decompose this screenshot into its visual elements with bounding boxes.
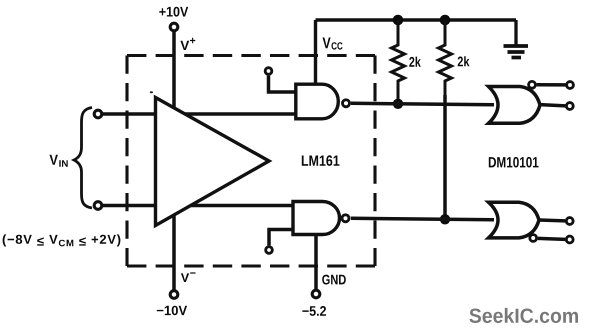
terminal G4 NOR	[566, 236, 573, 243]
wire V- supply	[172, 215, 176, 290]
gate G3 OR/NOR upper DM10101	[489, 87, 541, 124]
node junction VCC rail / R1	[393, 15, 404, 26]
label VCC	[323, 38, 331, 49]
gate G2 NAND lower	[293, 202, 340, 235]
resistor R2 2k	[439, 20, 452, 95]
gate G1 output bubble	[343, 100, 350, 107]
label -10V	[157, 306, 187, 316]
wire inverting input	[103, 204, 156, 208]
label -5.2	[302, 306, 326, 316]
wire GND pin	[314, 235, 318, 290]
label DM10101	[489, 157, 539, 168]
terminal inverting input	[94, 202, 102, 210]
label VIN	[50, 155, 58, 165]
wire G4 NOR output	[538, 238, 565, 239]
terminal G4 OR	[566, 218, 573, 225]
wire G4 OR output	[539, 218, 565, 222]
terminal G3 OR	[566, 103, 573, 110]
wire strobe 1	[269, 76, 296, 92]
terminal noninverting input	[94, 110, 102, 118]
label V-	[181, 273, 189, 282]
gate G2 output bubble	[342, 215, 349, 222]
label common-mode range	[3, 234, 121, 246]
label GND	[322, 275, 346, 285]
wire V+ supply	[172, 32, 176, 108]
gate G3 NOR bubble	[529, 81, 536, 88]
gate G4 NOR bubble	[530, 235, 537, 242]
terminal -10V	[170, 291, 178, 299]
terminal G3 NOR	[567, 82, 574, 89]
wire VCC rail	[316, 18, 517, 22]
label 2k R2	[458, 56, 470, 66]
wire G3 OR output	[540, 105, 566, 106]
watermark SeekIC.com	[469, 308, 578, 323]
node junction VCC rail / R2	[440, 15, 451, 26]
wire comparator output top	[185, 112, 296, 116]
wire G3 NOR output	[537, 83, 566, 87]
scan speck	[150, 91, 153, 93]
label +10V	[159, 7, 188, 17]
wire comparator output bottom	[191, 204, 293, 208]
node junction R1 / upper output line	[393, 99, 403, 109]
wire upper NAND output to OR gate	[351, 103, 494, 105]
brace VIN	[74, 108, 92, 209]
node junction R2 / lower output line	[440, 214, 450, 224]
terminal -5.2	[312, 290, 320, 298]
wire ground drop	[514, 20, 517, 45]
gate G4 OR/NOR lower DM10101	[489, 202, 540, 238]
resistor R1 2k	[392, 20, 405, 104]
label V+	[180, 41, 189, 50]
label 2k R1	[409, 57, 421, 67]
op-amp comparator LM161	[156, 98, 270, 226]
terminal strobe 2	[266, 247, 273, 254]
ground symbol	[504, 46, 529, 58]
terminal +10V	[170, 23, 178, 31]
terminal strobe 1	[265, 68, 272, 75]
wire VCC pin	[314, 20, 317, 84]
wire lower NAND output to OR gate	[351, 218, 494, 220]
wire noninverting input	[103, 112, 156, 116]
wire R2 lead down to lower output line	[443, 95, 447, 219]
gate G1 NAND upper	[296, 84, 339, 119]
dashed box LM161 boundary	[127, 56, 375, 267]
label LM161	[302, 155, 340, 166]
wire strobe 2	[269, 230, 293, 246]
